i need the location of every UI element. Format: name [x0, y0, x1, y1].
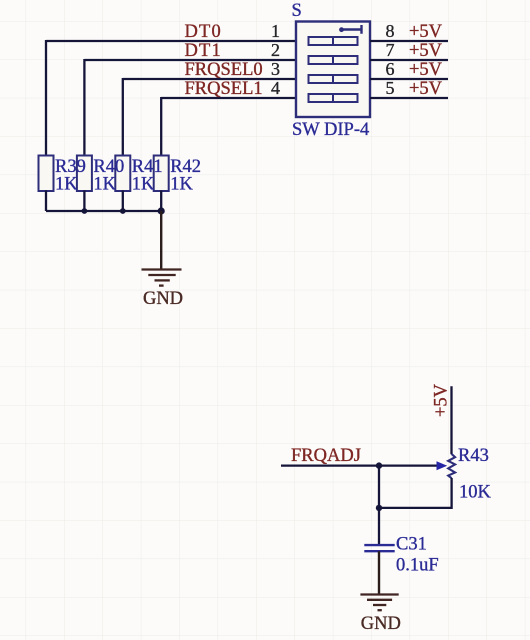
capacitor C31	[364, 545, 394, 551]
wire bus to ground	[160, 211, 162, 270]
resistor R42	[154, 156, 169, 192]
svg-text:+5V: +5V	[432, 383, 452, 417]
wire FRQSEL0 riser to R41	[122, 78, 124, 156]
dip switch S body	[296, 22, 370, 118]
pin 3 number	[271, 59, 280, 79]
wire FRQSEL1 horizontal (pin 4 to riser)	[161, 97, 296, 99]
designator S	[292, 1, 302, 21]
net label DT0	[185, 22, 223, 42]
power label +5V on pin 7	[409, 41, 443, 61]
dip switch rocker row 2	[309, 56, 358, 64]
label GND (top)	[143, 289, 183, 309]
svg-text:S: S	[292, 1, 302, 21]
junction at C31 node	[376, 505, 382, 511]
svg-text:C31: C31	[396, 534, 427, 554]
wire node to R43 bottom	[379, 478, 452, 508]
pin 8 number	[386, 21, 395, 41]
wire FRQSEL1 riser to R42	[160, 97, 162, 156]
wire FRQADJ node down	[378, 466, 380, 508]
pin 2 number	[271, 40, 280, 60]
svg-text:+5V: +5V	[409, 41, 443, 61]
svg-text:DT1: DT1	[185, 41, 223, 61]
label R40	[93, 157, 124, 177]
svg-text:+5V: +5V	[409, 60, 443, 80]
svg-text:0.1uF: 0.1uF	[396, 555, 439, 575]
dip switch rocker row 1	[309, 37, 358, 45]
wire FRQSEL0 horizontal (pin 3 to riser)	[123, 78, 296, 80]
svg-text:2: 2	[271, 40, 280, 60]
wire DT1 horizontal (pin 2 to riser)	[84, 59, 296, 61]
svg-text:GND: GND	[361, 614, 401, 634]
power label +5V vertical	[432, 383, 452, 417]
svg-text:1K: 1K	[55, 175, 78, 195]
svg-text:+5V: +5V	[409, 22, 443, 42]
svg-text:1K: 1K	[93, 175, 116, 195]
wire R39 bottom drop	[45, 191, 47, 212]
svg-text:1K: 1K	[170, 175, 193, 195]
wire pin 8	[370, 40, 448, 42]
junction at FRQADJ node	[376, 462, 382, 468]
resistor R41	[115, 156, 130, 192]
wire R41 bottom drop	[122, 191, 124, 212]
power label +5V on pin 6	[409, 60, 443, 80]
wire R42 bottom drop	[160, 191, 162, 212]
wire pin 7	[370, 59, 448, 61]
svg-text:7: 7	[386, 40, 395, 60]
net label FRQADJ	[291, 446, 361, 466]
net label FRQSEL1	[185, 79, 263, 99]
svg-text:+5V: +5V	[409, 79, 443, 99]
svg-text:6: 6	[386, 59, 395, 79]
value 0.1uF	[396, 555, 439, 575]
svg-text:3: 3	[271, 59, 280, 79]
pin 5 number	[386, 78, 395, 98]
ground symbol (bottom)	[360, 595, 398, 611]
value 10K	[459, 483, 492, 503]
value SW DIP-4	[292, 120, 369, 140]
svg-text:1K: 1K	[132, 175, 155, 195]
junction at R42 bus	[158, 207, 165, 214]
potentiometer R43 zigzag	[448, 454, 455, 478]
pin 1 number	[271, 21, 280, 41]
wire R40 bottom drop	[83, 191, 85, 212]
dip switch rocker row 4	[309, 94, 358, 102]
resistor R39	[39, 156, 54, 192]
svg-text:GND: GND	[143, 289, 183, 309]
svg-text:1: 1	[271, 21, 280, 41]
wire pin 6	[370, 78, 448, 80]
svg-text:R43: R43	[458, 446, 489, 466]
wire DT0 riser to R39	[45, 40, 47, 156]
value 1K of R42	[170, 175, 193, 195]
pin 7 number	[386, 40, 395, 60]
svg-text:FRQADJ: FRQADJ	[291, 446, 361, 466]
wire node down to C31	[378, 508, 380, 545]
label R43	[458, 446, 489, 466]
label GND (bottom)	[361, 614, 401, 634]
net label FRQSEL0	[185, 60, 263, 80]
pin 4 number	[271, 78, 280, 98]
ground symbol (top)	[142, 270, 182, 286]
value 1K of R40	[93, 175, 116, 195]
svg-text:DT0: DT0	[185, 22, 223, 42]
wire DT1 riser to R40	[83, 59, 85, 156]
dip switch rocker row 3	[309, 75, 358, 83]
label R41	[132, 157, 163, 177]
label R42	[170, 157, 201, 177]
svg-text:4: 4	[271, 78, 280, 98]
wiper arrow of R43	[437, 461, 448, 470]
svg-text:5: 5	[386, 78, 395, 98]
net label DT1	[185, 41, 223, 61]
resistor R40	[77, 156, 92, 192]
label C31	[396, 534, 427, 554]
dip switch actuator symbol	[339, 25, 361, 34]
svg-text:FRQSEL1: FRQSEL1	[185, 79, 263, 99]
junction at R41 bus	[120, 208, 126, 214]
power label +5V on pin 5	[409, 79, 443, 99]
svg-text:8: 8	[386, 21, 395, 41]
svg-text:10K: 10K	[459, 483, 492, 503]
pin 6 number	[386, 59, 395, 79]
junction at R40 bus	[82, 208, 88, 214]
wire +5V to R43	[450, 386, 452, 454]
label R39	[55, 157, 86, 177]
power label +5V on pin 8	[409, 22, 443, 42]
wire pin 5	[370, 97, 448, 99]
svg-text:FRQSEL0: FRQSEL0	[185, 60, 263, 80]
wire FRQADJ horizontal	[281, 464, 438, 466]
wire DT0 horizontal (pin 1 to riser)	[46, 40, 296, 42]
value 1K of R41	[132, 175, 155, 195]
value 1K of R39	[55, 175, 78, 195]
svg-text:SW DIP-4: SW DIP-4	[292, 120, 369, 140]
wire C31 to ground	[378, 551, 380, 594]
wire ground bus	[46, 210, 161, 212]
